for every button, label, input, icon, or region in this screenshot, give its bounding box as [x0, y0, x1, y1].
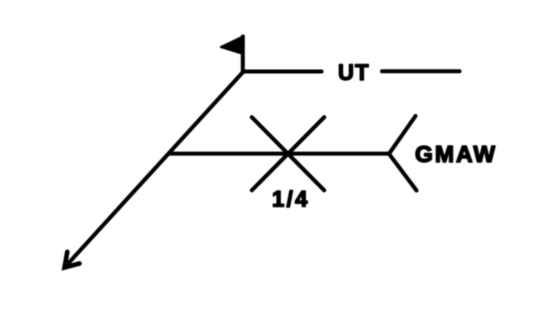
- flag pole: [241, 37, 245, 73]
- tail reference line right segment (after UT label): [382, 69, 460, 73]
- svg-text:1/4: 1/4: [272, 187, 310, 212]
- svg-text:UT: UT: [338, 60, 370, 85]
- field weld flag (filled triangle): [221, 36, 244, 53]
- tail reference line left segment (to UT label): [243, 70, 322, 74]
- arrow leader line: [65, 72, 244, 268]
- arrowhead (open barbs): [65, 252, 80, 268]
- X weld symbol stroke 2: [252, 117, 324, 190]
- weld reference line: [170, 152, 390, 156]
- tail lower stroke: [389, 154, 417, 191]
- svg-text:GMAW: GMAW: [415, 141, 497, 167]
- tail upper stroke: [389, 116, 416, 154]
- X weld symbol stroke 1: [252, 117, 324, 190]
